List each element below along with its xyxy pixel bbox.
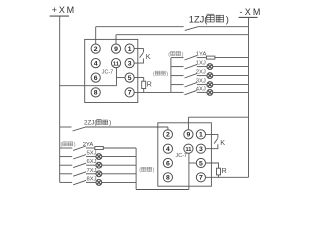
svg-text:): ) <box>226 14 229 24</box>
svg-text:6: 6 <box>166 160 170 167</box>
pin 6 (U1) <box>91 73 100 82</box>
contact 6XJ lead <box>60 164 72 166</box>
wire 1XJ to lamp <box>197 66 207 68</box>
pin 8 (U1) <box>91 88 100 97</box>
wire pin2 to contact 1ZJ <box>96 26 184 28</box>
wire 5XJ to start bus <box>102 156 136 158</box>
svg-text:JC-7: JC-7 <box>102 69 113 75</box>
wire contact 2ZJ to pin2 (U2) <box>85 126 168 128</box>
contact 7XJ lead <box>60 173 72 175</box>
wire 3XJ to lamp <box>197 84 207 86</box>
svg-text:4XJ: 4XJ <box>196 86 206 92</box>
resistor R (U2) <box>206 163 221 177</box>
svg-text:7XJ: 7XJ <box>87 168 97 174</box>
pin 4 (U1) <box>91 59 100 68</box>
pin 3 (U2) <box>196 144 205 153</box>
link 2YA (connecting strip) <box>95 147 104 150</box>
contact 2XJ blade <box>185 74 197 78</box>
pin 3 (U1) <box>125 59 134 68</box>
svg-text:1ZJ(: 1ZJ( <box>189 14 208 24</box>
contact 4XJ lead <box>171 91 184 93</box>
wire 1XJ to -XM <box>213 66 249 68</box>
contact 2YA lead <box>60 147 72 149</box>
svg-text:JC-7: JC-7 <box>176 153 187 159</box>
wire contact 1ZJ to -XM <box>198 26 249 28</box>
link 1YA (connecting strip) <box>206 56 215 59</box>
wire pin9 (U2) to -XM <box>188 116 248 118</box>
terminal bar -XM <box>239 16 258 18</box>
svg-text:(: ( <box>153 72 155 78</box>
svg-text:1: 1 <box>199 132 203 139</box>
svg-text:1XJ: 1XJ <box>196 61 206 67</box>
svg-text:R: R <box>147 80 152 89</box>
wire pin2 up <box>95 27 97 44</box>
pin 2 (U1) <box>91 44 100 53</box>
wire branch to pin 5 (U2) <box>189 162 196 164</box>
svg-text:4: 4 <box>94 60 98 67</box>
pin 8 (U2) <box>163 173 172 182</box>
wire 8XJ to start bus <box>102 181 136 183</box>
svg-text:8XJ: 8XJ <box>87 176 97 182</box>
svg-text:8: 8 <box>166 175 170 182</box>
contact 4XJ blade <box>185 90 197 94</box>
lamp 7XJ <box>96 171 102 177</box>
contact 1ZJ blade <box>185 27 198 31</box>
lamp 8XJ <box>96 180 102 186</box>
contact 3XJ blade <box>185 83 197 87</box>
svg-text:): ) <box>153 168 155 174</box>
pin 5 (U1) <box>125 73 134 82</box>
lamp 1XJ <box>207 64 213 70</box>
contact 2YA blade <box>73 146 86 150</box>
pin 9 (U1) <box>111 44 120 53</box>
label 1ZJ(复归) <box>189 14 229 24</box>
svg-text:): ) <box>182 52 184 58</box>
svg-text:+XM: +XM <box>52 5 76 15</box>
pin 2 (U2) <box>163 130 172 139</box>
wire 8XJ to lamp <box>86 181 96 183</box>
svg-text:11: 11 <box>113 61 119 67</box>
wire 2YA to start bus <box>103 147 136 149</box>
wire pin7 (U2) to -XM <box>206 176 249 178</box>
svg-text:3: 3 <box>128 60 132 67</box>
wire pin9 up <box>115 35 117 44</box>
wire 1YA to -XM <box>215 57 249 59</box>
svg-text:(: ( <box>168 52 170 58</box>
svg-text:7: 7 <box>199 175 203 182</box>
pin 11 (U1) <box>111 59 120 68</box>
contact 1YA blade <box>185 56 197 60</box>
svg-text:2YA: 2YA <box>83 142 94 148</box>
svg-text:R: R <box>222 166 227 175</box>
relay U2 JC-7 case <box>158 123 212 186</box>
wire 6XJ to start bus <box>102 164 136 166</box>
wire 5XJ to lamp <box>86 156 96 158</box>
lamp 2XJ <box>207 73 213 79</box>
svg-text:(: ( <box>61 142 63 148</box>
label (启动) lower <box>139 167 154 173</box>
svg-text:9: 9 <box>187 132 191 139</box>
contact 3XJ lead <box>171 84 184 86</box>
wire 6XJ to lamp <box>86 164 96 166</box>
svg-text:(: ( <box>139 168 141 174</box>
svg-text:6XJ: 6XJ <box>87 159 97 165</box>
svg-text:6: 6 <box>94 75 98 82</box>
pin 4 (U2) <box>163 144 172 153</box>
contact 6XJ blade <box>73 163 86 167</box>
svg-text:3XJ: 3XJ <box>196 79 206 85</box>
svg-text:1: 1 <box>128 46 132 53</box>
wire 2YA to link <box>86 147 95 149</box>
wire junction up to pin 11 <box>116 68 118 86</box>
svg-text:): ) <box>109 120 111 127</box>
pin 11 (U2) <box>184 144 193 153</box>
lamp 5XJ <box>96 154 102 160</box>
label (试验) upper <box>168 52 183 58</box>
svg-text:2ZJ(: 2ZJ( <box>84 120 97 127</box>
contact 8XJ lead <box>60 181 72 183</box>
wire +XM to U1 <box>60 85 117 87</box>
contact 8XJ blade <box>73 180 86 184</box>
pin 7 (U2) <box>196 173 205 182</box>
contact K (U1) <box>134 49 143 64</box>
svg-text:9: 9 <box>114 46 118 53</box>
wire 2XJ to -XM <box>213 75 249 77</box>
contact 2ZJ blade <box>73 127 86 131</box>
wire return to start bus (lower) <box>136 189 189 191</box>
svg-text:-XM: -XM <box>240 7 263 17</box>
bus -XM vertical <box>248 17 250 177</box>
wire 4XJ to lamp <box>197 91 207 93</box>
wire 3XJ to -XM <box>213 84 249 86</box>
svg-text:5: 5 <box>199 160 203 167</box>
contact 7XJ blade <box>73 172 86 176</box>
svg-text:5XJ: 5XJ <box>87 151 97 157</box>
wire 7XJ to lamp <box>86 173 96 175</box>
wire pin7 to test bus <box>134 91 171 93</box>
wire 4XJ to -XM <box>213 91 249 93</box>
lamp 6XJ <box>96 162 102 168</box>
relay U1 JC-7 case <box>85 39 138 102</box>
pin 9 (U2) <box>184 130 193 139</box>
contact 2ZJ lead <box>60 126 72 128</box>
svg-text:): ) <box>166 72 168 78</box>
contact 2XJ lead <box>171 75 184 77</box>
pin 5 (U2) <box>196 158 205 167</box>
svg-text:): ) <box>74 142 76 148</box>
wire down to pin2 (U2) <box>167 127 169 130</box>
svg-text:2XJ: 2XJ <box>196 70 206 76</box>
wire 7XJ to start bus <box>102 173 136 175</box>
label (启动) upper <box>153 71 168 77</box>
pin 1 (U1) <box>125 44 134 53</box>
svg-text:5: 5 <box>128 75 132 82</box>
svg-text:4: 4 <box>166 146 170 153</box>
svg-text:1YA: 1YA <box>196 52 207 58</box>
wire 2XJ to lamp <box>197 75 207 77</box>
svg-text:2: 2 <box>166 132 170 139</box>
wire pin11 (U2) down <box>188 153 190 189</box>
lamp 4XJ <box>207 90 213 96</box>
svg-text:11: 11 <box>185 147 191 153</box>
lamp 3XJ <box>207 82 213 88</box>
resistor R (U1) <box>134 78 146 93</box>
svg-text:K: K <box>146 52 151 61</box>
contact 1XJ blade <box>185 65 197 69</box>
svg-text:2: 2 <box>94 46 98 53</box>
wire 1YA to link <box>197 57 207 59</box>
svg-text:8: 8 <box>94 90 98 97</box>
label (试验) lower <box>61 142 76 148</box>
wire pin9 (U2) up <box>187 117 189 130</box>
label 2ZJ(复归) <box>84 119 111 126</box>
contact 5XJ blade <box>73 155 86 159</box>
bus test/start vertical (upper) <box>170 58 172 93</box>
pin 1 (U2) <box>196 130 205 139</box>
contact K (U2) <box>206 134 218 148</box>
svg-text:K: K <box>220 138 225 147</box>
contact 5XJ lead <box>60 156 72 158</box>
terminal bar +XM <box>50 15 69 17</box>
pin 6 (U2) <box>163 158 172 167</box>
contact 1XJ lead <box>171 66 184 68</box>
svg-text:7: 7 <box>128 90 132 97</box>
wire branch to pin 5 <box>117 77 126 79</box>
bus +XM vertical <box>59 16 61 182</box>
contact 1YA lead <box>171 57 184 59</box>
wire pin9 to -XM <box>116 34 249 36</box>
bus start vertical (lower right rail) <box>135 148 137 190</box>
svg-text:3: 3 <box>199 146 203 153</box>
pin 7 (U1) <box>125 88 134 97</box>
